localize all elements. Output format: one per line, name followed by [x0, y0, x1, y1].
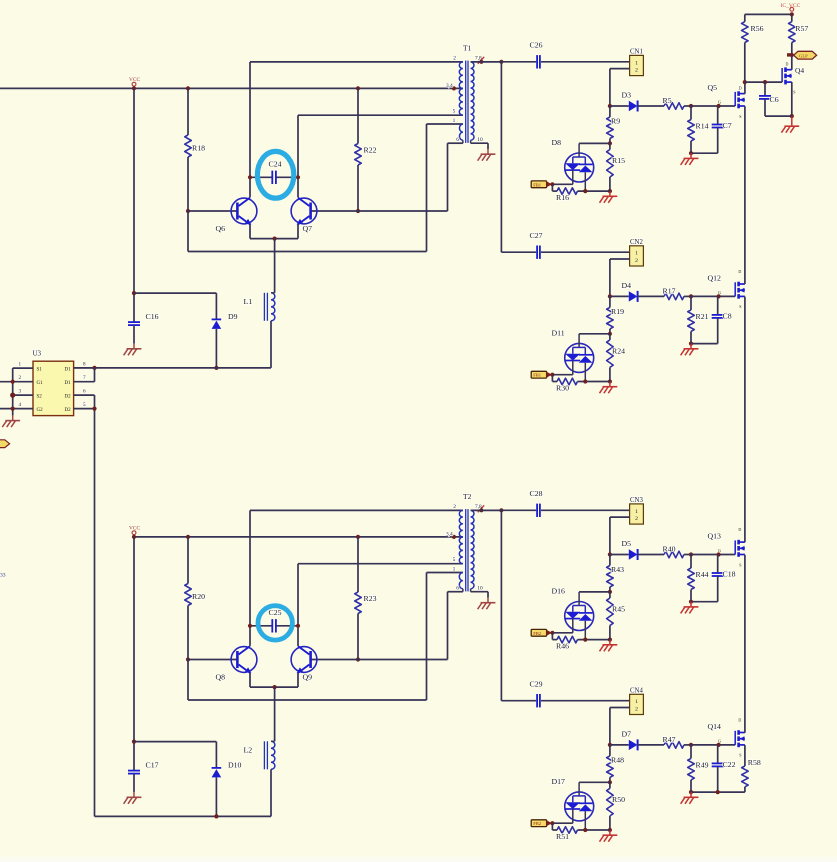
svg-text:G: G [718, 548, 721, 553]
svg-text:R45: R45 [612, 605, 625, 614]
svg-text:Q5: Q5 [708, 83, 718, 92]
svg-text:D2: D2 [65, 408, 72, 413]
svg-text:D1: D1 [65, 367, 72, 372]
svg-text:R16: R16 [556, 193, 569, 202]
svg-text:C27: C27 [530, 231, 543, 240]
svg-text:R51: R51 [556, 832, 569, 841]
svg-text:CN3: CN3 [630, 497, 643, 504]
svg-text:S: S [793, 90, 795, 95]
svg-text:Q8: Q8 [216, 672, 226, 681]
svg-text:S2: S2 [37, 394, 43, 399]
svg-text:R21: R21 [696, 312, 709, 321]
svg-text:FB1: FB1 [533, 182, 542, 187]
svg-text:4: 4 [19, 402, 22, 408]
svg-text:R17: R17 [663, 286, 676, 295]
svg-text:S1: S1 [37, 367, 43, 372]
svg-text:R47: R47 [663, 735, 676, 744]
svg-text:R40: R40 [663, 545, 676, 554]
svg-text:L1: L1 [244, 297, 253, 306]
svg-text:S: S [739, 114, 741, 119]
svg-text:2: 2 [635, 516, 638, 522]
svg-text:G: G [718, 739, 721, 744]
svg-text:5: 5 [453, 109, 456, 115]
svg-text:D1: D1 [65, 381, 72, 386]
svg-text:3,4: 3,4 [446, 83, 453, 89]
svg-text:33: 33 [0, 573, 6, 579]
svg-text:T1: T1 [463, 44, 472, 53]
svg-text:R43: R43 [611, 565, 624, 574]
svg-text:GLP: GLP [799, 53, 808, 58]
svg-text:G: G [718, 290, 721, 295]
svg-text:2: 2 [635, 67, 638, 73]
svg-text:VCC: VCC [129, 525, 140, 531]
svg-text:R56: R56 [751, 24, 764, 33]
svg-text:D: D [738, 269, 741, 274]
svg-text:1: 1 [453, 118, 456, 124]
svg-text:D8: D8 [552, 138, 562, 147]
svg-text:IC_VCC: IC_VCC [781, 3, 801, 9]
svg-text:R58: R58 [748, 758, 761, 767]
svg-text:2: 2 [453, 55, 456, 61]
svg-text:Q14: Q14 [708, 722, 722, 731]
svg-text:C26: C26 [530, 41, 543, 50]
svg-text:D9: D9 [228, 312, 238, 321]
svg-text:D: D [738, 527, 741, 532]
svg-text:R23: R23 [364, 594, 377, 603]
svg-text:R5: R5 [663, 96, 672, 105]
svg-text:Q13: Q13 [708, 532, 722, 541]
svg-text:G2: G2 [37, 408, 44, 413]
svg-text:1: 1 [453, 567, 456, 573]
svg-text:1: 1 [635, 509, 638, 515]
svg-text:D2: D2 [65, 394, 72, 399]
svg-text:6: 6 [83, 388, 86, 394]
svg-text:D3: D3 [622, 90, 632, 99]
svg-text:5: 5 [453, 557, 456, 563]
svg-text:R50: R50 [612, 795, 625, 804]
svg-text:R24: R24 [612, 346, 625, 355]
svg-text:Q4: Q4 [795, 66, 804, 75]
svg-text:FB1: FB1 [533, 373, 542, 378]
svg-text:S: S [739, 753, 741, 758]
svg-text:D11: D11 [552, 328, 565, 337]
svg-text:G: G [718, 100, 721, 105]
svg-text:6: 6 [456, 586, 459, 592]
svg-text:CN4: CN4 [630, 687, 643, 694]
svg-text:S: S [739, 562, 741, 567]
svg-text:R20: R20 [192, 592, 205, 601]
svg-text:1: 1 [635, 699, 638, 705]
svg-text:CN1: CN1 [630, 48, 643, 55]
svg-text:R57: R57 [795, 24, 808, 33]
svg-text:Q9: Q9 [303, 672, 313, 681]
svg-text:C28: C28 [530, 489, 543, 498]
svg-text:2: 2 [635, 706, 638, 712]
svg-text:R48: R48 [611, 756, 624, 765]
svg-text:D7: D7 [622, 729, 632, 738]
svg-text:D10: D10 [228, 761, 242, 770]
svg-text:3,4: 3,4 [446, 532, 453, 538]
svg-text:2: 2 [19, 375, 22, 381]
svg-text:C16: C16 [146, 312, 159, 321]
svg-text:8: 8 [83, 361, 86, 367]
svg-text:C6: C6 [770, 95, 779, 104]
svg-text:D: D [738, 718, 741, 723]
svg-text:R9: R9 [611, 117, 620, 126]
svg-text:C7: C7 [723, 121, 732, 130]
svg-text:D16: D16 [552, 587, 566, 596]
svg-text:R18: R18 [192, 144, 205, 153]
svg-text:Q7: Q7 [303, 224, 313, 233]
svg-text:R19: R19 [611, 307, 624, 316]
svg-text:C17: C17 [146, 760, 159, 769]
svg-text:C24: C24 [269, 160, 282, 169]
svg-text:C25: C25 [269, 608, 282, 617]
svg-text:L2: L2 [244, 746, 253, 755]
svg-text:C22: C22 [723, 760, 736, 769]
svg-text:C29: C29 [530, 679, 543, 688]
svg-text:FB2: FB2 [533, 821, 542, 826]
svg-text:1: 1 [19, 361, 22, 367]
svg-text:1: 1 [635, 251, 638, 257]
svg-text:R49: R49 [696, 760, 709, 769]
svg-text:S: S [739, 304, 741, 309]
svg-text:3: 3 [19, 388, 22, 394]
svg-text:R30: R30 [556, 383, 569, 392]
svg-text:R15: R15 [612, 156, 625, 165]
svg-text:Q12: Q12 [708, 273, 722, 282]
svg-text:R22: R22 [364, 145, 377, 154]
svg-text:G1: G1 [37, 381, 44, 386]
svg-text:2: 2 [453, 504, 456, 510]
svg-text:6: 6 [456, 137, 459, 143]
svg-text:T2: T2 [463, 492, 472, 501]
svg-text:U3: U3 [33, 349, 42, 357]
svg-text:5: 5 [83, 402, 86, 408]
svg-text:Q6: Q6 [216, 224, 226, 233]
svg-text:D4: D4 [622, 281, 632, 290]
svg-text:R14: R14 [696, 121, 709, 130]
svg-text:7: 7 [83, 375, 86, 381]
svg-text:10: 10 [477, 137, 483, 143]
svg-text:D5: D5 [622, 539, 632, 548]
svg-text:10: 10 [477, 586, 483, 592]
svg-text:VCC: VCC [129, 77, 140, 83]
svg-text:1: 1 [635, 60, 638, 66]
svg-text:D: D [739, 85, 742, 90]
svg-text:CN2: CN2 [630, 239, 643, 246]
svg-text:R44: R44 [696, 570, 709, 579]
svg-text:C8: C8 [723, 312, 732, 321]
svg-text:D17: D17 [552, 777, 566, 786]
svg-text:R46: R46 [556, 642, 569, 651]
svg-text:FB2: FB2 [533, 631, 542, 636]
svg-text:2: 2 [635, 258, 638, 264]
svg-text:C18: C18 [723, 570, 736, 579]
svg-text:D: D [786, 61, 789, 66]
